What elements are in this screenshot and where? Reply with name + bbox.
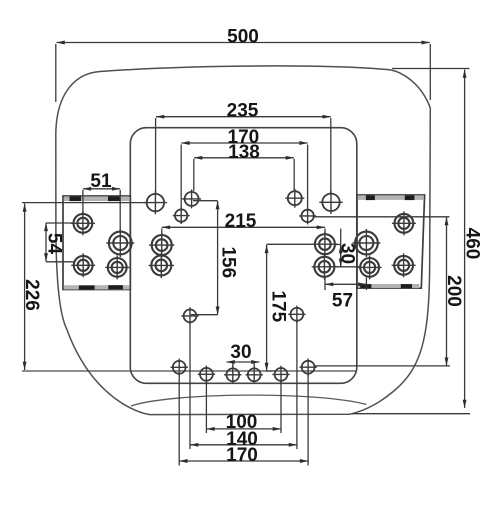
hole N	[272, 366, 289, 383]
svg-text:200: 200	[443, 275, 464, 307]
dim 226	[22, 203, 146, 370]
hole D	[285, 189, 304, 208]
svg-text:500: 500	[227, 27, 259, 48]
dim 30 right plate	[329, 229, 359, 268]
hole M	[246, 366, 263, 383]
hole H	[288, 306, 305, 323]
hole A top-left outer	[144, 191, 167, 214]
dim 57	[325, 277, 366, 290]
hole G	[181, 307, 198, 324]
inner mounting panel rounded rect	[130, 128, 356, 384]
right plate top bar	[358, 195, 424, 200]
hole L	[224, 366, 241, 383]
small cross holes	[144, 189, 343, 384]
hole C	[182, 189, 201, 208]
inner panel lower feature line	[22, 370, 357, 372]
dim 460 right	[352, 69, 470, 414]
dim 235	[156, 117, 331, 194]
svg-text:51: 51	[90, 171, 112, 192]
hole Z right plate bottom-left	[358, 255, 382, 279]
hole X right plate big	[352, 229, 380, 257]
hole J	[299, 359, 316, 376]
hole K	[198, 366, 215, 383]
dim 170 top	[181, 143, 308, 209]
right slide plate	[357, 195, 425, 288]
dim 200 right	[314, 217, 451, 366]
hole T left plate big	[106, 229, 134, 257]
left slide plate	[63, 196, 130, 290]
hole R	[312, 254, 337, 279]
svg-text:215: 215	[225, 211, 257, 232]
hole E	[173, 207, 190, 224]
svg-text:156: 156	[218, 246, 239, 278]
dim 140 bottom	[190, 321, 297, 450]
svg-text:235: 235	[227, 101, 259, 122]
svg-text:138: 138	[228, 142, 260, 163]
svg-text:226: 226	[21, 279, 42, 311]
left plate bottom bar	[64, 285, 130, 289]
dim 156	[191, 201, 218, 315]
seat outline	[56, 66, 431, 415]
dim 500 top	[56, 43, 431, 103]
dim 138	[194, 158, 294, 191]
svg-text:460: 460	[461, 228, 482, 260]
dim 54	[46, 223, 74, 262]
hole W right plate top	[392, 211, 416, 235]
svg-text:57: 57	[332, 291, 353, 312]
hole O	[149, 232, 174, 257]
svg-text:170: 170	[226, 445, 258, 466]
hole U left plate bottom-left	[71, 253, 95, 277]
hole I	[171, 359, 188, 376]
dim 100 bottom	[206, 381, 281, 433]
svg-text:30: 30	[230, 342, 251, 363]
hole F	[299, 207, 316, 224]
seat front lip contour	[131, 395, 367, 406]
dim 215	[162, 227, 325, 234]
hole Y right plate bottom-right	[392, 253, 416, 277]
dim 170 bottom	[179, 374, 308, 466]
hole V left plate bottom-right	[105, 255, 129, 279]
svg-text:54: 54	[44, 233, 65, 255]
dim 175	[267, 244, 315, 371]
hole S left plate top	[71, 211, 95, 235]
hole Q	[312, 232, 337, 257]
right plate bottom bar	[359, 284, 420, 288]
left plate top bar	[64, 196, 129, 201]
dim 30 bottom	[227, 362, 260, 368]
double circle holes center columns	[149, 232, 338, 280]
dim 51	[83, 189, 120, 231]
hole B top-right outer	[319, 191, 342, 214]
svg-text:30: 30	[336, 243, 357, 264]
hole P	[149, 253, 174, 278]
svg-text:175: 175	[268, 290, 289, 322]
plate holes	[71, 211, 416, 279]
